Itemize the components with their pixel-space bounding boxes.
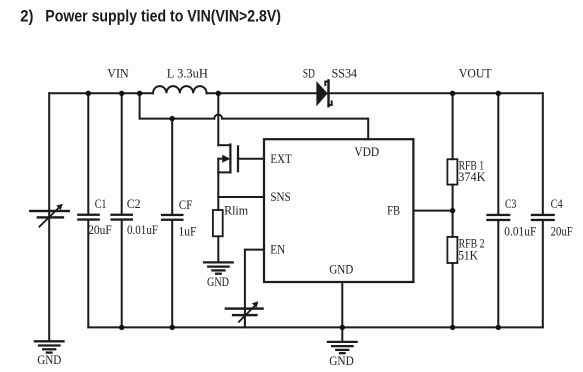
capacitor C4 vertical wires bbox=[542, 93, 544, 213]
svg-text:GND: GND bbox=[37, 353, 61, 367]
svg-text:EN: EN bbox=[270, 243, 285, 257]
node C2 bottom bbox=[119, 325, 124, 330]
wire gate to EXT bbox=[238, 158, 264, 160]
svg-text:FB: FB bbox=[387, 203, 400, 217]
pin EN bbox=[270, 243, 285, 257]
svg-text:SS34: SS34 bbox=[332, 67, 358, 81]
label C3 bbox=[505, 197, 516, 211]
svg-text:C1: C1 bbox=[95, 197, 107, 211]
pin EXT bbox=[270, 152, 292, 166]
pin FB bbox=[387, 203, 400, 217]
svg-text:Power supply tied to VIN(VIN>2: Power supply tied to VIN(VIN>2.8V) bbox=[45, 8, 281, 26]
label 0.01uF right bbox=[504, 224, 536, 238]
label SD bbox=[303, 67, 315, 81]
svg-text:CF: CF bbox=[179, 198, 192, 212]
ground GND left bbox=[35, 341, 64, 352]
svg-text:EXT: EXT bbox=[270, 152, 292, 166]
op-amp U1 IC box bbox=[264, 139, 413, 282]
transistor Q1 body arrow bbox=[218, 158, 224, 160]
svg-text:C4: C4 bbox=[551, 197, 564, 211]
variable source VS1 arrow bbox=[39, 208, 59, 227]
node IC GND bbox=[340, 325, 345, 330]
node C2 top bbox=[119, 91, 124, 96]
wire left input vertical bbox=[48, 93, 50, 341]
wire hop over SW vertical bbox=[214, 115, 222, 119]
label SS34 bbox=[332, 67, 358, 81]
svg-text:C3: C3 bbox=[505, 197, 516, 211]
wire Rlim to ground bbox=[217, 236, 219, 262]
wire top rail diode-to-VOUT segment bbox=[328, 92, 543, 94]
label 1uF bbox=[179, 224, 197, 238]
svg-text:C2: C2 bbox=[127, 197, 141, 211]
variable source VS1 bars bbox=[29, 210, 70, 219]
label VOUT bbox=[459, 67, 492, 81]
svg-text:VOUT: VOUT bbox=[459, 67, 492, 81]
node CF tap bbox=[170, 116, 175, 121]
node C3 top bbox=[496, 91, 501, 96]
label CF bbox=[179, 198, 192, 212]
ground GND Rlim bbox=[204, 262, 233, 273]
wire top rail SW-to-diode segment bbox=[207, 92, 317, 94]
capacitor CF vertical wires bbox=[171, 119, 173, 214]
svg-text:VIN: VIN bbox=[107, 67, 128, 81]
label RFB 1 bbox=[459, 158, 485, 172]
wire bottom rail bbox=[88, 326, 543, 328]
capacitor C2 plates bbox=[110, 214, 133, 221]
label RFB 2 bbox=[459, 236, 485, 250]
capacitor C2 vertical wires bbox=[121, 93, 123, 213]
svg-text:374K: 374K bbox=[458, 170, 485, 184]
svg-text:L 3.3uH: L 3.3uH bbox=[167, 67, 208, 81]
node VDD branch bbox=[137, 91, 142, 96]
ground GND center bbox=[328, 342, 357, 353]
resistor RFB1 bbox=[447, 159, 457, 184]
svg-text:GND: GND bbox=[329, 354, 354, 368]
wire VDD branch to IC top bbox=[222, 119, 368, 140]
capacitor C3 vertical wires bbox=[497, 93, 499, 213]
svg-text:2): 2) bbox=[20, 8, 33, 26]
label 20uF right bbox=[551, 224, 573, 238]
capacitor C1 vertical wires bbox=[87, 93, 89, 213]
wire RFB branch top bbox=[452, 93, 454, 159]
node junction dots bbox=[86, 91, 501, 330]
node C3 bottom bbox=[496, 325, 501, 330]
resistor Rlim bbox=[213, 210, 223, 236]
capacitor C4 plates bbox=[531, 214, 555, 221]
node RFB2 bottom bbox=[450, 325, 455, 330]
title bbox=[20, 8, 281, 26]
svg-text:VDD: VDD bbox=[354, 145, 379, 159]
node SW bbox=[216, 91, 221, 96]
label C4 bbox=[551, 197, 564, 211]
node C1 top bbox=[86, 91, 91, 96]
svg-text:GND: GND bbox=[329, 263, 353, 277]
wire top rail VIN segment bbox=[49, 92, 153, 94]
pin GND bbox=[329, 263, 353, 277]
inductor L 3.3uH bbox=[153, 86, 207, 93]
svg-text:20uF: 20uF bbox=[551, 224, 573, 238]
node FB bbox=[450, 208, 455, 213]
variable source VS2 arrow bbox=[239, 306, 255, 322]
svg-text:SD: SD bbox=[303, 67, 315, 81]
svg-text:0.01uF: 0.01uF bbox=[127, 223, 158, 237]
label GND left bbox=[37, 353, 61, 367]
label C2 bbox=[127, 197, 141, 211]
diode SD SS34 triangle bbox=[316, 81, 327, 106]
svg-text:0.01uF: 0.01uF bbox=[504, 224, 536, 238]
wire IC GND to ground bbox=[341, 282, 343, 342]
variable source VS2 bars bbox=[225, 307, 264, 316]
svg-text:GND: GND bbox=[207, 275, 229, 289]
svg-text:51K: 51K bbox=[458, 248, 478, 262]
wire SNS lead bbox=[218, 196, 263, 198]
transistor Q1 channel bar bbox=[229, 145, 231, 173]
svg-text:Rlim: Rlim bbox=[224, 204, 248, 218]
resistor RFB2 bbox=[447, 237, 457, 263]
wire RFB2 bottom bbox=[452, 263, 454, 327]
transistor Q1 drain bend bbox=[218, 144, 230, 146]
label GND Rlim bbox=[207, 275, 229, 289]
svg-text:20uF: 20uF bbox=[88, 223, 112, 237]
label 20uF bbox=[88, 223, 112, 237]
label Rlim bbox=[224, 204, 248, 218]
wire source down to Rlim bbox=[217, 172, 219, 210]
label 0.01uF bbox=[127, 223, 158, 237]
label 51K bbox=[458, 248, 478, 262]
wire VDD branch: drop from VIN node bbox=[140, 93, 215, 118]
capacitor C3 plates bbox=[486, 214, 510, 221]
diode SS34 schottky bar bbox=[327, 80, 329, 106]
transistor Q1 source bracket bbox=[217, 159, 219, 173]
label 374K bbox=[458, 170, 485, 184]
pin SNS bbox=[270, 190, 290, 204]
capacitor CF plates bbox=[161, 214, 184, 221]
wire RFB middle bbox=[452, 185, 454, 237]
label L 3.3uH bbox=[167, 67, 208, 81]
label VIN bbox=[107, 67, 128, 81]
svg-text:1uF: 1uF bbox=[179, 224, 197, 238]
transistor Q1 gate bar bbox=[237, 146, 239, 171]
capacitor C1 plates bbox=[77, 214, 100, 221]
node VOUT RFB bbox=[450, 91, 455, 96]
wire FB lead bbox=[413, 210, 452, 212]
label GND center bbox=[329, 354, 354, 368]
node CF bottom bbox=[170, 325, 175, 330]
label C1 bbox=[95, 197, 107, 211]
wire SW node vertical bbox=[217, 93, 219, 145]
wire EN lead bbox=[245, 250, 264, 328]
pin VDD bbox=[354, 145, 379, 159]
svg-text:SNS: SNS bbox=[270, 190, 290, 204]
